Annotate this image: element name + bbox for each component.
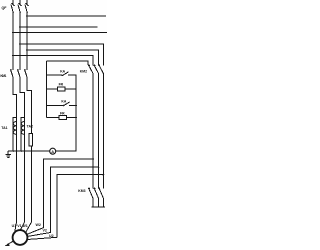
wire motor lead U1: [15, 222, 17, 232]
ammeter A: [50, 148, 56, 154]
wire motor lead W1: [26, 222, 32, 232]
wire TA2 secondary lead: [21, 118, 24, 152]
star point shorting bar: [92, 206, 104, 208]
contactor KM1 pole 2: [18, 70, 21, 78]
svg-text:KM2: KM2: [80, 70, 87, 74]
contactor KM3 pole 3: [99, 189, 103, 199]
wire phase L1 vertical upper: [12, 13, 14, 70]
wire phase L1 jog: [13, 78, 17, 120]
wire phase L2 vertical upper: [19, 13, 21, 70]
svg-text:TA1: TA1: [1, 126, 7, 130]
breaker QF pole 2 blade: [18, 5, 20, 13]
wire TA1 secondary lead: [13, 118, 16, 152]
wire tap T5 y50 to corner B: [27, 50, 99, 65]
node tap T3: [12, 32, 14, 34]
wire phase L3 lower: [31, 146, 33, 222]
svg-text:KA: KA: [61, 99, 66, 103]
node ladder joins: [75, 105, 77, 107]
contactor KM3 pole 1: [89, 189, 93, 199]
motor M circle: [13, 230, 28, 245]
svg-text:V2: V2: [43, 228, 47, 232]
resistor FR upper branch: [47, 88, 58, 90]
contactor KM1 pole 1: [11, 70, 14, 78]
wire motor lead V1: [20, 222, 24, 230]
breaker QF pole 1 cross tick: [12, 3, 15, 5]
breaker QF pole 3 blade: [25, 5, 27, 13]
wire motor lead W2 diagonal: [27, 228, 43, 235]
svg-text:FR: FR: [60, 111, 65, 115]
breaker QF pole 1 stub: [12, 0, 14, 4]
wire branch row 2 to motor V2: [50, 167, 98, 232]
svg-text:KM1: KM1: [0, 74, 6, 78]
svg-text:W1: W1: [22, 224, 27, 228]
svg-text:TA2: TA2: [27, 124, 33, 128]
breaker QF pole 2 stub: [19, 0, 21, 4]
node T at (93,159): [92, 158, 94, 160]
wire tap T3 y32.5: [13, 32, 107, 34]
wire tap T4 y44 to corner A: [20, 44, 103, 65]
wire phase L1 lower: [16, 120, 18, 223]
wire KM2 pole1 vertical down to star bank: [92, 74, 94, 188]
svg-text:W2: W2: [36, 223, 41, 227]
svg-text:KM3: KM3: [78, 189, 85, 193]
node T at (103.4,174.7): [103, 174, 105, 176]
contactor KM3 pole 2: [95, 189, 99, 199]
node T at (98.5,167.2): [98, 166, 100, 168]
wire motor lead U2 diagonal: [27, 237, 57, 239]
wire phase L2 jog: [20, 78, 25, 120]
node tap T1: [26, 15, 28, 17]
wire ammeter bus y151: [8, 150, 49, 152]
wire KM2 pole3 vertical down to star bank: [102, 74, 104, 188]
ladder left rail: [46, 61, 48, 118]
wire tap T2 y27: [20, 26, 97, 28]
svg-text:A: A: [51, 149, 54, 154]
contactor KM2 pole 2: [95, 66, 99, 74]
wire branch row 1 to motor W2: [43, 159, 93, 228]
wire KM2 pole2 vertical down to star bank: [98, 74, 100, 188]
wire tap T6 y55.7 to corner C: [13, 56, 93, 65]
svg-text:KA: KA: [60, 69, 65, 73]
node tap T2: [19, 26, 21, 28]
resistor FR lower branch: [47, 117, 59, 119]
svg-text:FR: FR: [59, 82, 64, 86]
breaker QF pole 2 cross tick: [19, 3, 22, 5]
wire branch row 3 to motor U2: [57, 175, 103, 238]
svg-text:V1: V1: [17, 224, 21, 228]
ground symbol: [7, 151, 9, 154]
breaker QF pole 1 blade: [11, 5, 13, 13]
contactor KM2 pole 3: [99, 66, 103, 74]
node tap T4: [19, 43, 21, 45]
wire tap T1 y16: [27, 15, 106, 17]
contactor KM1 pole 3: [25, 70, 28, 78]
svg-text:U2: U2: [49, 234, 54, 238]
breaker QF pole 3 stub: [26, 0, 28, 4]
ladder top rail to corner D: [47, 61, 88, 65]
breaker QF pole 3 cross tick: [26, 3, 29, 5]
contactor KM2 pole 1: [89, 66, 93, 74]
ladder right rail down to ammeter bus: [75, 75, 77, 151]
svg-text:QF: QF: [2, 6, 8, 10]
contact KA lower branch: [47, 104, 63, 106]
svg-text:U1: U1: [12, 224, 17, 228]
wire phase L3 jog: [27, 78, 32, 134]
node tap T5: [26, 49, 28, 51]
contact KA upper branch: [47, 74, 62, 76]
wire motor lead V2 diagonal: [28, 233, 51, 237]
motor ground arrow: [7, 241, 13, 245]
current transformer TA2 winding arcs: [21, 122, 24, 135]
wire phase L2 lower: [24, 120, 26, 223]
wire phase L3 vertical upper: [26, 13, 28, 70]
node tap T6: [12, 55, 14, 57]
resistor FR element on phase L3: [29, 134, 33, 147]
current transformer TA1 winding arcs: [13, 122, 16, 135]
